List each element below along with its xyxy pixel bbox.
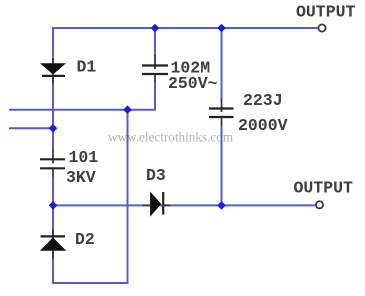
capacitor C 101: [40, 149, 65, 177]
wire bottom rail: [52, 282, 129, 284]
svg-text:D3: D3: [146, 166, 166, 185]
diode D2: [40, 229, 66, 259]
node junction wire C 223J: [217, 201, 226, 210]
wire top rail: [53, 27, 318, 29]
wire right vertical lower (223J bottom lead): [221, 126, 223, 205]
svg-text:OUTPUT: OUTPUT: [294, 179, 354, 198]
diode D3: [143, 192, 171, 217]
wire middle vertical: [127, 110, 129, 284]
svg-text:D2: D2: [75, 230, 95, 249]
svg-text:101: 101: [69, 148, 99, 167]
terminal OUTPUT top: [318, 24, 325, 31]
node junction wire B left: [49, 124, 58, 133]
wire left vertical lower (through D2): [52, 177, 54, 284]
svg-text:D1: D1: [77, 58, 97, 77]
node junction top 223J: [217, 24, 226, 33]
svg-text:223J: 223J: [243, 91, 283, 110]
wire input A horizontal: [9, 109, 155, 111]
node junction wire C left: [49, 201, 58, 210]
diode D1: [40, 58, 66, 84]
wire left vertical upper (D1 branch): [52, 27, 54, 150]
node junction top 102M: [151, 24, 160, 33]
wire right vertical upper (223J top lead): [221, 27, 223, 100]
terminal OUTPUT bottom: [316, 201, 323, 208]
svg-text:250V~: 250V~: [168, 74, 218, 93]
node junction wire A mid vertical: [123, 105, 132, 114]
wire input B horizontal: [9, 127, 53, 129]
capacitor C 223J: [209, 99, 234, 127]
svg-text:2000V: 2000V: [238, 116, 288, 135]
wire 102M top lead: [154, 27, 156, 56]
svg-text:OUTPUT: OUTPUT: [296, 3, 356, 22]
svg-text:3KV: 3KV: [66, 168, 96, 187]
wire 102M bottom lead: [154, 81, 156, 111]
capacitor C 102M: [142, 55, 168, 82]
wire output C horizontal: [53, 204, 315, 206]
